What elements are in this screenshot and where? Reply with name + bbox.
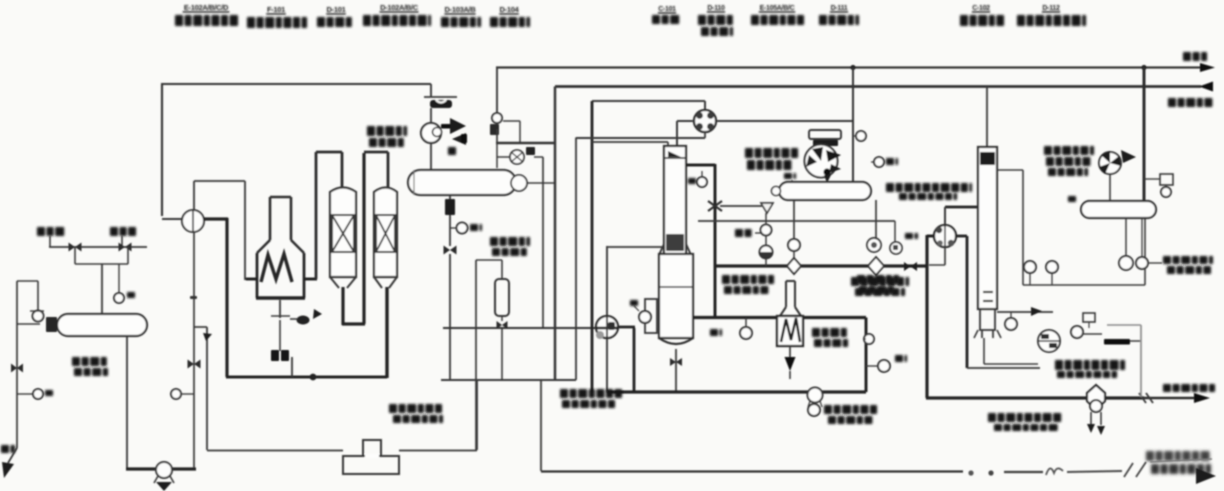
valve solid	[904, 262, 917, 271]
label D-110	[707, 5, 725, 13]
pipe R-102 bottom	[385, 287, 388, 378]
pump P-106B	[1136, 257, 1148, 269]
reactor R-102	[374, 188, 397, 278]
pipe header C corner	[704, 101, 706, 110]
reboiler E-109	[1038, 330, 1060, 352]
pipe drain left	[16, 281, 18, 448]
label E-107	[1044, 146, 1094, 155]
label E-105	[745, 148, 798, 158]
pipe stub	[291, 357, 293, 377]
arrow E-105 drop	[823, 168, 830, 175]
pipe header C	[592, 100, 705, 102]
label P small	[857, 275, 899, 284]
instrument FC4	[701, 171, 703, 176]
label D-108A/B	[886, 183, 972, 192]
label D-112	[1042, 5, 1060, 13]
pipe overhead	[986, 87, 988, 148]
aircooler E-105 louver	[809, 130, 841, 139]
pipe fuel line	[279, 320, 281, 351]
pipe R-102 feed	[364, 151, 388, 154]
column C-102	[978, 147, 997, 309]
instrument TI1	[740, 327, 752, 339]
label FC small	[905, 233, 918, 239]
vessel small KO pot	[495, 279, 509, 316]
pipe reboiler draw header	[693, 316, 866, 319]
pipe drop to drum D-111	[852, 68, 854, 183]
valve V5	[444, 246, 457, 255]
svg-text:D-111: D-111	[831, 5, 848, 12]
pipe v5	[475, 260, 477, 450]
valve V2	[119, 243, 132, 252]
pipe right thick down	[956, 235, 967, 238]
valve V6	[497, 321, 508, 329]
drum D-111	[779, 182, 871, 200]
svg-text:D-110: D-110	[707, 5, 725, 12]
label E-102A/B/C/D	[183, 3, 230, 13]
pipe feed header	[49, 246, 147, 248]
column D-110 upper	[664, 146, 686, 254]
vessel D-105 feed drum	[57, 314, 147, 336]
pipe fan to drum	[1109, 174, 1111, 201]
label E-104A/B	[560, 389, 622, 398]
relief line	[496, 67, 498, 113]
exchanger E-108 circle	[934, 225, 956, 247]
pipe bottom long line	[541, 470, 963, 472]
reactor R-101	[330, 188, 356, 278]
pipe reboiler draw	[997, 311, 1053, 313]
pipe cold feed riser	[161, 84, 163, 216]
pipe hot outlet	[203, 217, 228, 220]
node junction A1	[850, 65, 855, 70]
svg-text:D-101: D-101	[327, 5, 346, 14]
label E-103	[367, 126, 407, 136]
label D-111	[830, 5, 848, 13]
side tube	[645, 299, 657, 333]
pipe bottom nozzle	[675, 349, 677, 392]
svg-text:C-101: C-101	[658, 6, 676, 13]
svg-text:D-103A/B: D-103A/B	[445, 5, 477, 14]
valve V7	[670, 358, 682, 366]
label D-105	[72, 357, 107, 366]
label E-108 reboiler	[1055, 360, 1125, 370]
label to flare	[1168, 98, 1212, 107]
aircooler E-105 fan	[805, 145, 838, 178]
label D-102A/B/C	[380, 3, 419, 13]
funnel fitting	[761, 204, 773, 213]
pedestal flare KO	[363, 440, 381, 456]
label C-102	[972, 5, 990, 13]
instrument FC1	[17, 393, 33, 395]
pipe drum bottom	[126, 336, 128, 468]
pipe to E-104	[449, 254, 451, 380]
watermark text	[1146, 451, 1211, 474]
pump P-107	[1087, 385, 1105, 410]
pipe loop v1	[554, 87, 557, 381]
heater E-110	[785, 281, 787, 307]
instrument on box right	[864, 334, 874, 344]
pipe loop v4	[542, 157, 544, 327]
exchanger E-104	[596, 316, 618, 338]
valve fuel control	[297, 316, 310, 325]
pipe cooler header	[496, 142, 556, 144]
pipe column top inlet	[592, 141, 668, 143]
column skirt	[980, 309, 995, 330]
valve PSV	[492, 113, 502, 123]
column D-110 lower	[659, 254, 693, 338]
arrow blowdown	[8, 448, 17, 463]
valve row line	[698, 220, 895, 222]
label E-202	[490, 237, 530, 246]
label LG1	[784, 173, 796, 179]
label ALB	[735, 229, 752, 237]
slashes	[1124, 463, 1133, 477]
aircooler E-107 fan	[1099, 152, 1121, 174]
valve black	[1104, 339, 1130, 345]
pipe to air cooler	[430, 84, 432, 97]
svg-text:E-102A/B/C/D: E-102A/B/C/D	[184, 3, 229, 12]
valve circles	[765, 213, 767, 246]
pipe v634	[633, 328, 636, 392]
arrow E-107	[1121, 150, 1136, 163]
drum D-104	[408, 170, 516, 195]
label to unit	[1163, 256, 1213, 264]
pipe product main	[927, 235, 934, 238]
valve V1	[69, 243, 82, 252]
pipe furnace feed	[245, 278, 258, 280]
pipe gray riser	[1140, 325, 1142, 397]
pump P-106A	[1119, 256, 1133, 270]
pipe E-104 drop	[606, 246, 608, 392]
pipe drum outlet 1	[793, 200, 795, 240]
pipe feed drop	[74, 247, 76, 264]
svg-text:E-105A/B/C: E-105A/B/C	[760, 5, 795, 12]
instrument FC3	[450, 227, 456, 229]
pipe drum outlets	[1125, 218, 1127, 256]
pipe long bottom v	[540, 380, 542, 471]
aircooler E-102 louver	[424, 96, 457, 98]
pump P-103 station	[867, 238, 881, 252]
pipe top crossover	[161, 83, 431, 85]
label C-101	[658, 6, 676, 14]
instrument PC	[1083, 313, 1095, 322]
furnace F-101	[269, 197, 272, 240]
instrument box	[1160, 174, 1173, 185]
pipe drum outlet 2	[875, 200, 877, 238]
dots	[968, 470, 973, 475]
exchanger E-101	[162, 218, 183, 220]
label D-103A/B	[444, 5, 476, 15]
label P-101A/B	[389, 404, 442, 413]
pipe R-101 bottom	[341, 287, 344, 325]
pipe loop v3	[591, 101, 594, 392]
instrument LC1	[639, 311, 651, 323]
instrument FC5	[871, 161, 874, 163]
svg-text:C-102: C-102	[972, 5, 990, 12]
pipe side loop	[997, 169, 1023, 171]
pipe discharge	[716, 120, 853, 122]
aircooler E-102 fan	[421, 123, 441, 143]
label fuel gas	[271, 350, 279, 361]
squiggle	[1046, 468, 1063, 475]
svg-text:D-112: D-112	[1042, 5, 1060, 12]
arrow vapor out	[441, 124, 451, 129]
pipe drum bottom outlet	[449, 195, 451, 246]
label E-105A/B	[759, 5, 795, 13]
instrument FC2	[181, 393, 194, 395]
pipe box bottom	[607, 390, 866, 393]
instrument TR1	[118, 264, 120, 293]
label E-106A/B	[722, 275, 774, 284]
label LG2	[1068, 196, 1076, 202]
pipe bottoms run	[226, 376, 387, 379]
pump P-102	[156, 462, 172, 478]
drum D-112	[1081, 201, 1156, 218]
pipe drum vapor	[527, 182, 555, 184]
instrument PI1	[853, 135, 856, 137]
valve mix	[510, 150, 524, 164]
pipe rich amine line	[720, 205, 762, 207]
label P-105A/B	[824, 405, 877, 414]
pipe bottom return	[207, 450, 343, 452]
valve V3	[11, 364, 23, 373]
svg-text:D-104: D-104	[500, 5, 520, 14]
label feed oil	[37, 227, 64, 236]
pipe heater drain	[789, 346, 791, 357]
orifice marks	[983, 291, 993, 293]
pipe furnace outlet riser	[315, 152, 318, 279]
pipe lean amine header	[714, 264, 927, 267]
pipe cooler to drum	[430, 108, 432, 123]
valve inline X	[708, 201, 722, 211]
pipe header B	[555, 85, 1201, 88]
pipe loop v2	[575, 138, 577, 381]
node tie-in	[1139, 393, 1146, 403]
label steam	[110, 227, 136, 236]
svg-text:D-102A/B/C: D-102A/B/C	[380, 3, 419, 12]
label 7-xx	[1160, 174, 1162, 176]
pipe suction	[677, 120, 695, 122]
pipe reboiler loop	[983, 338, 985, 364]
label D-101	[326, 5, 346, 15]
pump P-105	[808, 388, 823, 403]
svg-text:F-101: F-101	[267, 5, 285, 14]
label P-107A/B	[988, 413, 1061, 422]
pipe hearth stubs	[246, 278, 257, 281]
pipe E-101 bottom	[193, 232, 195, 468]
valve V4	[188, 360, 201, 369]
column D-110 flare	[659, 244, 664, 255]
compressor C-101	[694, 110, 716, 132]
label to storage	[1163, 384, 1215, 392]
pipe recycle down	[194, 326, 207, 328]
instrument LV	[1024, 261, 1036, 273]
pump P-106 circle	[1071, 326, 1083, 338]
label F-101	[266, 5, 286, 15]
label blowdown	[1, 445, 15, 453]
label P-104A/B	[851, 277, 909, 286]
pipe furnace bottom outlet	[279, 300, 281, 318]
node junction B1	[310, 374, 317, 381]
pipe tailgas drop	[1143, 68, 1146, 202]
pipe E-101 shell out	[193, 181, 195, 211]
pipe pump suction run	[126, 467, 196, 470]
node junction A2	[1141, 65, 1146, 70]
pipe cross	[607, 246, 664, 248]
arrow bottom	[1196, 468, 1216, 484]
label E-110	[812, 328, 847, 337]
pipe main vent header A	[496, 66, 1204, 68]
label D-104	[499, 5, 519, 15]
label offgas	[1183, 52, 1207, 61]
pipe loop bottom	[441, 379, 576, 381]
pipe rich out	[686, 164, 715, 167]
pipe stripper feed top	[945, 206, 978, 209]
